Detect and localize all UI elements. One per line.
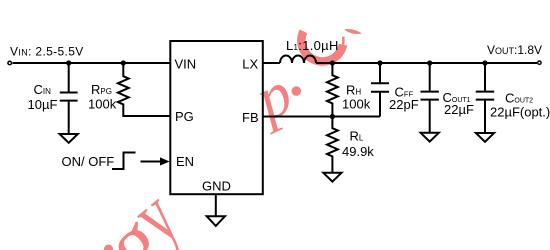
svg-text:LX: LX [242, 57, 258, 72]
svg-text:22pF: 22pF [389, 97, 419, 112]
svg-text:49.9k: 49.9k [342, 144, 374, 159]
svg-text:100k: 100k [342, 97, 371, 112]
svg-text:RL: RL [350, 129, 364, 144]
svg-text:FB: FB [242, 110, 259, 125]
svg-text:EN: EN [176, 154, 194, 169]
svg-text:GND: GND [202, 179, 231, 194]
svg-text:100k: 100k [88, 97, 117, 112]
svg-text:COUT2: COUT2 [505, 90, 533, 105]
svg-text:22µF(opt.): 22µF(opt.) [490, 105, 550, 120]
svg-text:CIN: CIN [34, 82, 52, 97]
svg-text:VIN: 2.5-5.5V: VIN: 2.5-5.5V [10, 45, 84, 59]
svg-text:L1:1.0µH: L1:1.0µH [286, 38, 339, 53]
svg-text:ON/ OFF: ON/ OFF [62, 154, 115, 169]
svg-text:RPG: RPG [91, 82, 112, 97]
svg-text:10µF: 10µF [28, 97, 58, 112]
svg-text:PG: PG [175, 109, 194, 124]
svg-text:22µF: 22µF [444, 102, 474, 117]
svg-text:VOUT:1.8V: VOUT:1.8V [487, 43, 542, 57]
svg-text:RH: RH [346, 82, 361, 97]
svg-text:VIN: VIN [175, 57, 197, 72]
